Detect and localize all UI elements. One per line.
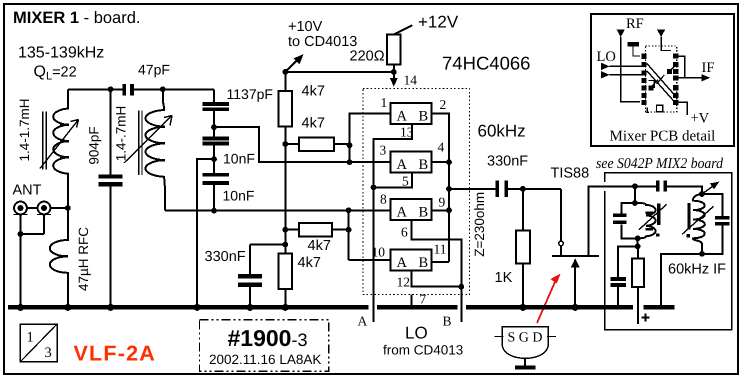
node pin1 bias [347,142,353,148]
node L2 top [160,86,166,92]
node output [446,186,452,192]
node 1K top [520,186,526,192]
inductor L2 1.4-.7mH variable [124,89,172,210]
wire ANT to L1 [21,207,68,209]
resistor 1K [495,189,530,305]
resistor R 4k7 upper horizontal [285,116,349,152]
IC U1 74HC4066 dotted outline [363,88,470,294]
svg-text:from CD4013: from CD4013 [383,343,463,358]
svg-text:ANT: ANT [13,183,42,199]
node tap1 [211,124,217,130]
svg-text:1.4-1.7mH: 1.4-1.7mH [17,98,32,161]
node bias mid [282,141,288,147]
resistor feed plus [632,246,650,324]
ground bus segment 1 [8,305,368,310]
node pin14 feed [391,69,397,75]
svg-text:RF: RF [626,16,644,32]
svg-text:see S042P MIX2 board: see S042P MIX2 board [596,156,723,172]
svg-text:LO: LO [405,324,428,343]
node 4k7 on bus [282,304,289,311]
box S042P board [605,173,732,330]
resistor R 4k7 top vertical [279,72,325,144]
svg-text:IF: IF [702,60,715,76]
box sheet 1 of 3 [20,324,57,362]
svg-text:4k7: 4k7 [308,238,331,254]
svg-text:6: 6 [401,225,408,240]
PCB open square [657,105,663,111]
ground bus segment 4 [644,305,675,310]
svg-text:10nF: 10nF [223,188,255,204]
svg-text:9: 9 [439,195,446,210]
svg-text:LO: LO [597,49,616,65]
svg-text:2: 2 [440,97,447,112]
switch U1a [391,103,432,124]
svg-text:QL=22: QL=22 [34,64,77,83]
node B control [458,284,464,290]
node pin8 tap [346,207,352,213]
svg-text:TIS88: TIS88 [551,166,590,182]
wire pin 10 [349,259,391,261]
svg-text:12: 12 [397,275,411,290]
switch U1c [391,199,432,220]
svg-text:MIXER 1 - board.: MIXER 1 - board. [13,9,140,27]
red arrow [537,274,561,323]
wire pin 2 output column [432,114,449,262]
svg-text:74HC4066: 74HC4066 [442,53,530,74]
wire pin 8 [349,210,391,259]
svg-text:B: B [419,109,429,125]
wire tap1 to pins 1,3 [214,127,350,162]
arrow IF [678,74,710,81]
capacitor 10nF upper [203,137,255,167]
capacitor 47pF [123,62,170,96]
arrow LO lower [601,71,644,78]
wire ground tap to bus [197,159,214,305]
svg-text:A: A [397,157,408,173]
PCB dotted outline [646,46,677,112]
arrow LO upper [601,63,644,70]
node pin3 tap [347,159,353,165]
svg-text:330nF: 330nF [487,154,528,170]
wire output to cap [449,188,561,190]
node RFC on bus [64,304,71,311]
wire +10V rail [285,71,394,73]
capacitor 330nF output [487,154,528,198]
svg-text:A: A [397,255,408,271]
PCB diagonal traces [647,63,675,102]
node L1 bottom [65,205,71,211]
transformer T1 tank [613,186,667,241]
package S G D bottom view [494,327,556,370]
wire divider top [213,89,215,102]
wire pin 9 [432,209,449,211]
node divider ground on bus [194,304,201,311]
svg-text:904pF: 904pF [87,126,102,164]
svg-text:47pF: 47pF [138,62,170,78]
svg-text:14: 14 [404,73,418,88]
node pin10 bias [346,227,352,233]
svg-text:7: 7 [420,292,427,307]
node 1K on bus [519,304,526,311]
connector J1 [14,202,28,215]
inductor 47uH RFC [50,208,68,305]
ground bus segment 3 [466,305,633,310]
node 904pF on bus [107,304,114,311]
wire top link [635,186,702,194]
wire top rail left tank [68,88,214,90]
PCB crossing strokes [652,75,665,86]
transformer T2 tank [682,182,729,257]
svg-text:Mixer PCB detail: Mixer PCB detail [610,129,716,145]
box Mixer PCB detail [591,14,734,146]
node lower tap [211,208,217,214]
wire pin 5 [374,173,412,188]
capacitor bypass left [611,246,638,305]
inductor L1 1.4-1.7mH variable [40,89,79,208]
svg-text:60kHz: 60kHz [478,122,526,141]
wire pin 4 [432,161,449,163]
capacitor 1137pF [203,86,273,111]
svg-text:B: B [419,157,429,173]
wire L2 bottom to pins 8,10 [165,210,349,212]
svg-text:4k7: 4k7 [298,255,321,271]
node T1 bottom [635,244,641,250]
svg-text:8: 8 [380,192,387,207]
arrow RF right [657,29,671,50]
svg-text:#1900-3: #1900-3 [228,325,308,351]
node A control [371,185,377,191]
svg-text:+10V: +10V [288,19,323,35]
node bias lower [282,227,288,233]
svg-text:1: 1 [381,95,388,110]
svg-text:B: B [443,314,452,329]
wire 1137pF to tap1 [213,111,215,137]
node +10V left [282,69,288,75]
svg-text:VLF-2A: VLF-2A [74,342,156,366]
resistor R 4k7 lower horizontal [285,223,348,254]
wire pin 3 [350,161,391,163]
svg-text:330nF: 330nF [205,249,246,265]
arrow RF left [617,29,641,102]
svg-text:A: A [397,109,408,125]
switch U1d [391,250,432,271]
svg-text:220Ω: 220Ω [350,49,385,65]
svg-text:1: 1 [27,330,34,346]
node divider ground tap [211,156,217,162]
svg-text:B: B [419,255,429,271]
wire connector grounds [21,215,45,306]
wire pin 13 to A [374,124,412,322]
svg-text:Z=230ohm: Z=230ohm [472,192,487,257]
PCB mid pads [648,69,672,91]
PCB right pads [673,53,678,105]
svg-text:4k7: 4k7 [302,116,325,132]
switch U1b [391,152,432,173]
connector J2 [37,202,51,215]
resistor R 4k7 bottom vertical [279,245,321,306]
svg-text:+12V: +12V [418,13,459,32]
svg-text:11: 11 [434,242,447,257]
arrow pin 14 [390,72,417,88]
svg-text:5: 5 [402,174,409,189]
PCB hook trace [676,56,685,78]
node pin4 [446,159,452,165]
svg-text:+V: +V [691,111,710,127]
svg-text:to CD4013: to CD4013 [288,34,357,50]
svg-text:A: A [397,204,408,220]
wire bias mid chain [284,144,286,245]
node ANT ground on bus [17,304,24,311]
PCB i mark [646,108,649,113]
svg-text:1K: 1K [495,270,513,286]
wire +V elbow [678,102,687,115]
pad T mark [628,42,640,56]
svg-text:135-139kHz: 135-139kHz [18,45,104,62]
wire T2 to ground [661,254,702,306]
capacitor 10nF lower [203,173,255,204]
node connector ground tie [18,231,24,237]
resistor 220 ohm [350,25,413,72]
arrow to +10V [285,54,303,72]
PCB mid link [648,65,676,89]
wire pin 1 [350,114,391,162]
node drain entry [632,183,638,189]
svg-text:3: 3 [380,143,387,158]
svg-text:3: 3 [45,345,52,361]
svg-text:4: 4 [438,140,445,155]
svg-text:10nF: 10nF [223,151,255,167]
svg-text:47µH RFC: 47µH RFC [76,227,91,291]
svg-text:2002.11.16 LA8AK: 2002.11.16 LA8AK [209,352,321,367]
capacitor coupling top [656,180,667,191]
wire T1 bottom [637,238,639,246]
svg-text:B: B [419,204,429,220]
wire mid [213,145,215,172]
svg-text:60kHz IF: 60kHz IF [668,262,726,278]
capacitor 904pF [99,89,123,305]
svg-text:1137pF: 1137pF [227,86,273,102]
wire pin 7 ground [411,295,413,306]
node 330nF on bus [247,304,254,311]
transistor TIS88 FET [552,186,635,305]
svg-text:1.4-.7mH: 1.4-.7mH [114,106,129,162]
svg-text:A: A [358,314,368,329]
box 1900 stamp [200,320,329,372]
svg-text:4k7: 4k7 [302,84,325,100]
wire pin 12 [412,271,462,287]
ground bus segment 2 [377,305,457,310]
PCB left pads [642,54,647,105]
node FET source on bus [572,304,579,311]
node 904pF top [108,86,114,92]
wire pin 6 to B [412,220,462,322]
node pin9 [446,207,452,213]
svg-text:S G D: S G D [508,331,543,346]
wire 10nF to lower tap [213,185,215,211]
capacitor 330nF shunt [205,245,286,306]
wire pin 11 [432,261,449,263]
svg-text:10: 10 [372,245,386,260]
node 330nF tie [282,242,288,248]
